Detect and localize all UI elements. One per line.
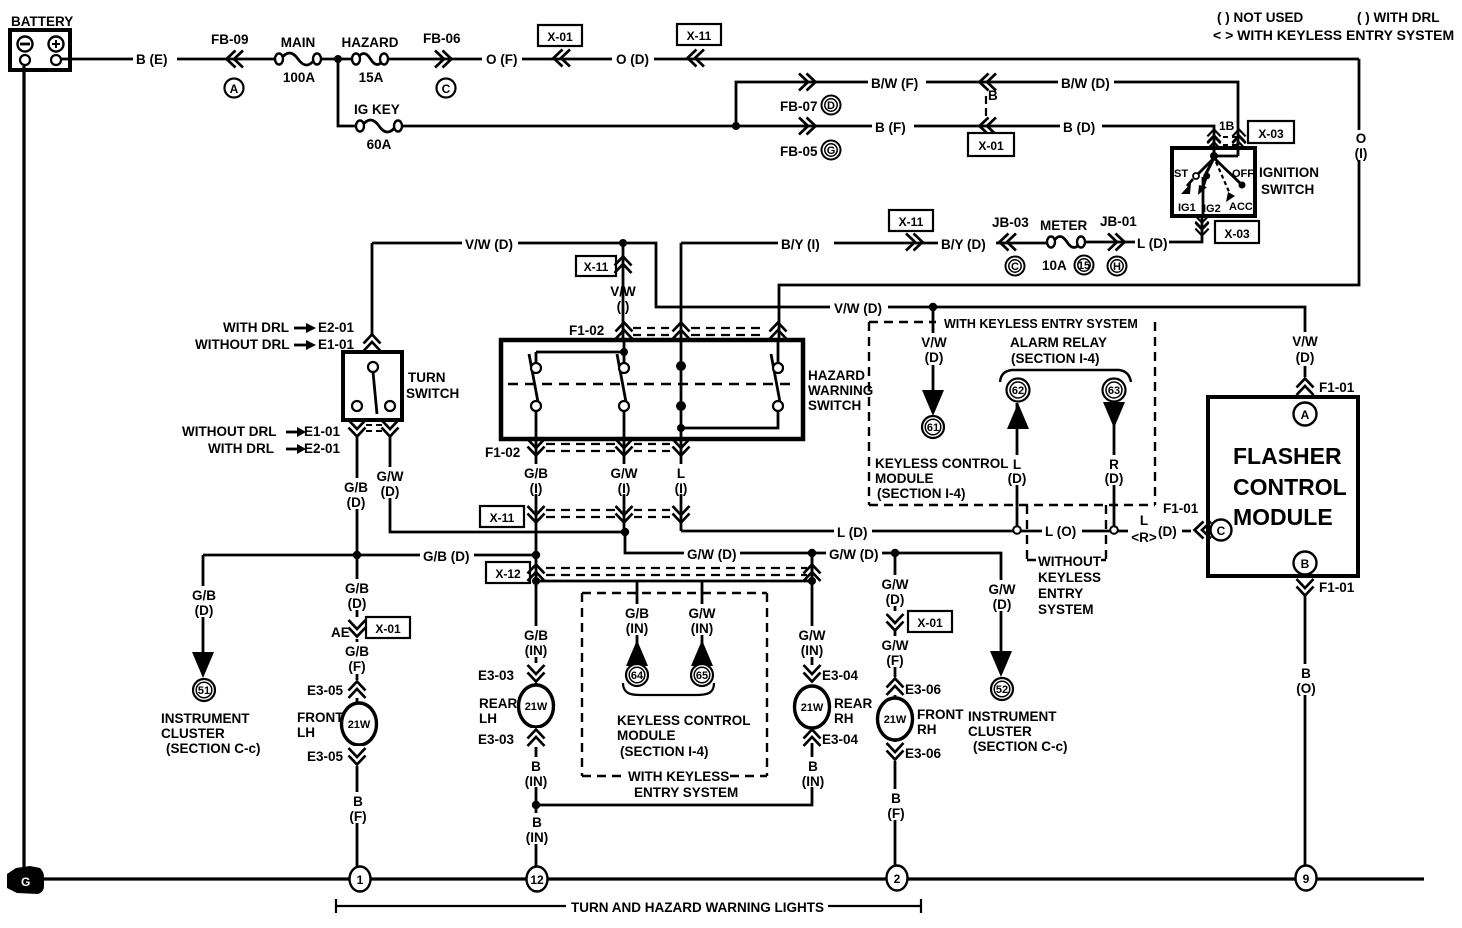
svg-text:KEYLESS: KEYLESS xyxy=(1038,570,1101,585)
label G/B (D) 51 xyxy=(186,586,222,618)
dashed box WITH KEYLESS ENTRY SYSTEM xyxy=(869,317,1155,505)
svg-text:H: H xyxy=(1113,261,1121,273)
svg-text:CLUSTER: CLUSTER xyxy=(968,724,1032,739)
svg-text:X-11: X-11 xyxy=(490,511,515,525)
hazard pole 4 feed from O(I) xyxy=(771,340,783,411)
svg-text:(F): (F) xyxy=(349,809,366,824)
label G/W (IN) 65 xyxy=(683,604,721,636)
svg-text:ENTRY SYSTEM: ENTRY SYSTEM xyxy=(634,785,738,800)
wire junction to IG KEY fuse xyxy=(338,59,355,126)
svg-text:B: B xyxy=(1301,557,1310,571)
label G/W (D) front RH xyxy=(876,575,915,607)
svg-text:D: D xyxy=(827,100,835,112)
svg-text:G/B (D): G/B (D) xyxy=(423,549,470,564)
label WITHOUT DRL E1-01 upper xyxy=(195,337,355,352)
terminal A flasher xyxy=(1294,403,1317,426)
svg-text:B (D): B (D) xyxy=(1063,120,1095,135)
svg-text:G/B: G/B xyxy=(192,588,216,603)
svg-text:F1-01: F1-01 xyxy=(1319,380,1355,395)
svg-text:(D): (D) xyxy=(348,596,367,611)
svg-text:FB-06: FB-06 xyxy=(423,31,461,46)
hazard pole 1 G/B xyxy=(529,352,541,439)
svg-text:L (D): L (D) xyxy=(1137,236,1168,251)
turn switch TURN SWITCH xyxy=(343,352,402,420)
wire branch up to B/W(F) xyxy=(736,82,1238,156)
svg-text:IGNITION: IGNITION xyxy=(1259,165,1319,180)
svg-text:WITH DRL: WITH DRL xyxy=(208,441,274,456)
label L(O) between xyxy=(1042,522,1082,539)
svg-text:L (O): L (O) xyxy=(1045,524,1076,539)
svg-text:WITHOUT: WITHOUT xyxy=(1038,554,1102,569)
label G/W (I) xyxy=(606,464,642,496)
arrow into 64 xyxy=(626,640,648,666)
connector FB-09 xyxy=(211,32,249,98)
ground node 9 xyxy=(1296,866,1317,891)
label B (IN) rear LH xyxy=(518,757,554,789)
svg-text:F1-01: F1-01 xyxy=(1163,501,1199,516)
svg-text:(IN): (IN) xyxy=(802,774,825,789)
connector chevron above turn switch xyxy=(364,335,381,352)
svg-text:G: G xyxy=(827,145,836,157)
svg-text:FLASHER: FLASHER xyxy=(1233,443,1342,469)
svg-text:G/W (D): G/W (D) xyxy=(829,547,879,562)
dashed box keyless control module xyxy=(582,593,767,800)
connector FB-07 on B/W wire xyxy=(780,74,841,115)
svg-text:REAR: REAR xyxy=(479,696,518,711)
svg-text:B/Y (D): B/Y (D) xyxy=(941,237,986,252)
svg-text:E3-05: E3-05 xyxy=(307,683,344,698)
svg-text:G/B: G/B xyxy=(625,606,649,621)
svg-text:WITH DRL: WITH DRL xyxy=(223,320,289,335)
ground bus wire xyxy=(20,877,1424,880)
svg-text:IG2: IG2 xyxy=(1203,203,1221,215)
junction dot B(IN) bus xyxy=(532,801,540,809)
svg-text:G/W: G/W xyxy=(611,466,638,481)
svg-text:SWITCH: SWITCH xyxy=(406,386,459,401)
svg-text:X-01: X-01 xyxy=(978,139,1004,153)
svg-text:MODULE: MODULE xyxy=(1233,504,1333,530)
svg-text:(I): (I) xyxy=(1355,146,1368,161)
label O(I) xyxy=(1348,130,1372,161)
svg-text:B: B xyxy=(1301,666,1311,681)
svg-text:HAZARD: HAZARD xyxy=(342,35,399,50)
svg-text:REAR: REAR xyxy=(834,696,873,711)
connector X-11 top xyxy=(677,24,721,67)
svg-text:B: B xyxy=(891,791,901,806)
label G/B (D) front LH xyxy=(339,579,375,611)
connector X-11 below V/W junction xyxy=(576,256,632,276)
lamp FRONT RH 21W xyxy=(878,698,913,740)
flasher box xyxy=(1208,397,1358,576)
terminal 51 instrument cluster xyxy=(193,679,215,701)
label L(D) meter xyxy=(1135,235,1169,251)
svg-text:RH: RH xyxy=(834,711,854,726)
label B(D) xyxy=(1060,118,1102,135)
pin 1B connector xyxy=(1207,119,1245,149)
wire G/B(D) horizontal xyxy=(203,554,536,557)
junction dot front RH branch xyxy=(891,549,899,557)
svg-text:ALARM RELAY: ALARM RELAY xyxy=(1010,335,1107,350)
svg-text:WITH KEYLESS: WITH KEYLESS xyxy=(628,769,729,784)
wire L(D) from hazard to flasher xyxy=(681,530,1191,533)
svg-text:(IN): (IN) xyxy=(691,621,714,636)
arrow into 51 xyxy=(192,652,214,678)
svg-text:(D): (D) xyxy=(381,484,400,499)
svg-text:(O): (O) xyxy=(1296,681,1316,696)
wire L(I) pillar xyxy=(680,439,683,531)
svg-text:( ) WITH DRL: ( ) WITH DRL xyxy=(1357,10,1439,25)
svg-text:(IN): (IN) xyxy=(525,643,548,658)
connector X-03 top xyxy=(1248,121,1294,143)
svg-text:C: C xyxy=(442,82,451,96)
ground node 1 xyxy=(350,867,371,892)
svg-text:L (D): L (D) xyxy=(837,525,868,540)
label G/W(D) a xyxy=(684,546,740,562)
label G/B (F) xyxy=(339,642,375,674)
label G/B (D) turn left xyxy=(340,478,374,510)
svg-text:B (F): B (F) xyxy=(875,120,906,135)
svg-text:(D): (D) xyxy=(1008,471,1027,486)
label WITHOUT DRL E1-01 lower xyxy=(182,424,341,439)
svg-text:G/B: G/B xyxy=(345,644,369,659)
svg-text:BATTERY: BATTERY xyxy=(11,14,73,29)
label L (I) xyxy=(666,464,696,496)
junction dot V/W(D) keyless xyxy=(929,303,937,311)
svg-text:X-11: X-11 xyxy=(584,260,609,274)
svg-text:(I): (I) xyxy=(530,481,543,496)
svg-text:B/W (D): B/W (D) xyxy=(1061,76,1110,91)
svg-text:F1-02: F1-02 xyxy=(485,445,520,460)
label WITH DRL E2-01 lower xyxy=(208,441,341,456)
svg-text:G/W: G/W xyxy=(882,638,909,653)
svg-text:52: 52 xyxy=(996,684,1008,696)
connector F1-01 A xyxy=(1297,379,1355,396)
terminal circle L(D) on wire xyxy=(1013,526,1021,534)
junction dot G/W turn + hazard xyxy=(621,528,629,536)
svg-text:A: A xyxy=(230,82,239,96)
wire stem to 64 xyxy=(636,581,639,645)
wire rear LH column xyxy=(535,581,538,867)
svg-text:63: 63 xyxy=(1108,385,1120,397)
svg-text:(D): (D) xyxy=(195,603,214,618)
svg-text:B (E): B (E) xyxy=(136,52,168,67)
terminal 62 alarm relay xyxy=(1007,379,1030,402)
connector C into flasher xyxy=(1195,522,1212,539)
connector X-03 bottom xyxy=(1215,221,1259,243)
svg-text:(D): (D) xyxy=(993,597,1012,612)
wire meter fuse to ignition xyxy=(1085,241,1168,244)
svg-text:WARNING: WARNING xyxy=(808,383,873,398)
connector X-01 front RH xyxy=(887,611,953,632)
connector E3-05 lower xyxy=(307,746,366,766)
label V/W (D) flasher A xyxy=(1288,332,1324,366)
svg-text:X-11: X-11 xyxy=(687,29,712,43)
svg-text:RH: RH xyxy=(917,722,937,737)
wire G/B(I) pillar xyxy=(535,439,538,555)
svg-text:X-03: X-03 xyxy=(1258,127,1284,141)
svg-text:INSTRUMENT: INSTRUMENT xyxy=(161,711,250,726)
wire 63 to R(D) with down arrow xyxy=(1113,402,1116,527)
terminal 63 alarm relay xyxy=(1103,379,1126,402)
svg-text:(F): (F) xyxy=(887,806,904,821)
svg-text:SWITCH: SWITCH xyxy=(1261,182,1314,197)
label B/W(F) xyxy=(868,74,926,91)
connector F1-01 B xyxy=(1297,579,1355,596)
svg-text:E1-01: E1-01 xyxy=(304,424,341,439)
ground node 2 xyxy=(887,866,908,891)
svg-text:G/B: G/B xyxy=(344,480,368,495)
label R (D) 63 xyxy=(1099,455,1131,486)
terminal circle R(D) on wire xyxy=(1110,526,1118,534)
label L <R> (D) xyxy=(1128,513,1182,545)
svg-text:51: 51 xyxy=(198,685,210,697)
svg-text:LH: LH xyxy=(297,725,315,740)
label G/W (D) 52 xyxy=(983,580,1022,612)
label B/Y(D) xyxy=(938,235,996,252)
svg-text:1: 1 xyxy=(357,873,364,887)
svg-text:SWITCH: SWITCH xyxy=(808,398,861,413)
svg-text:ENTRY: ENTRY xyxy=(1038,586,1083,601)
junction dot V/W xyxy=(619,239,627,247)
svg-text:MODULE: MODULE xyxy=(875,471,934,486)
terminal B flasher xyxy=(1294,552,1317,575)
svg-text:9: 9 xyxy=(1303,872,1310,886)
svg-text:B: B xyxy=(808,759,818,774)
svg-text:V/W: V/W xyxy=(921,335,947,350)
label V/W (D) 61 xyxy=(916,333,954,365)
svg-text:WITHOUT DRL: WITHOUT DRL xyxy=(195,337,289,352)
svg-text:B: B xyxy=(353,794,363,809)
svg-text:100A: 100A xyxy=(283,70,316,85)
wire battery negative to ground bus xyxy=(22,66,25,879)
ignition switch box xyxy=(1172,146,1255,216)
label L (D) 62 xyxy=(1002,455,1033,486)
svg-text:TURN: TURN xyxy=(408,370,446,385)
label B/W(D) xyxy=(1058,74,1114,91)
dashed box WITHOUT KEYLESS xyxy=(1027,505,1106,617)
svg-text:15A: 15A xyxy=(359,70,384,85)
svg-text:G/W: G/W xyxy=(989,582,1016,597)
svg-text:G/W: G/W xyxy=(882,577,909,592)
label G/W (D) turn right xyxy=(372,467,408,499)
terminal 61 keyless control module xyxy=(922,416,944,438)
label O(D) xyxy=(612,51,654,67)
svg-text:(I): (I) xyxy=(675,481,688,496)
svg-text:(D): (D) xyxy=(347,495,366,510)
svg-text:CONTROL: CONTROL xyxy=(1233,474,1347,500)
svg-text:G/W: G/W xyxy=(799,628,826,643)
bracket TURN AND HAZARD WARNING LIGHTS xyxy=(336,899,921,915)
connectors below turn switch xyxy=(349,420,399,437)
label V/W (I) xyxy=(606,283,642,314)
svg-text:C: C xyxy=(1217,524,1226,538)
connector FB-06 xyxy=(423,31,461,98)
svg-text:B/Y (I): B/Y (I) xyxy=(781,237,820,252)
connector X-12 row xyxy=(486,562,821,583)
terminal 65 xyxy=(691,664,713,686)
wire IG KEY fuse to ignition switch B(D) xyxy=(402,126,1214,156)
ground symbol G xyxy=(7,866,44,894)
svg-text:X-01: X-01 xyxy=(917,616,943,630)
wire flasher B to ground 9 xyxy=(1304,596,1307,867)
svg-text:(IN): (IN) xyxy=(626,621,649,636)
label B (D) flasher xyxy=(1290,664,1322,696)
svg-text:FRONT: FRONT xyxy=(917,707,964,722)
svg-text:IG KEY: IG KEY xyxy=(354,102,400,117)
junction dot G/B pillar xyxy=(532,551,540,559)
svg-text:JB-01: JB-01 xyxy=(1100,214,1137,229)
svg-text:L: L xyxy=(1140,513,1148,528)
svg-text:X-01: X-01 xyxy=(375,622,401,636)
connector E3-06 lower xyxy=(887,742,942,761)
svg-text:O (F): O (F) xyxy=(486,52,518,67)
arrow into 61 xyxy=(922,390,944,416)
junction dot G/B front LH xyxy=(353,551,361,559)
wire stem to 65 xyxy=(701,581,704,645)
svg-text:<R>: <R> xyxy=(1131,530,1157,545)
svg-text:HAZARD: HAZARD xyxy=(808,368,865,383)
connector E3-03 upper xyxy=(478,663,545,683)
svg-text:G: G xyxy=(21,875,30,889)
connector JB-01 xyxy=(1100,214,1137,276)
label B/Y(I) xyxy=(778,235,834,252)
svg-text:12: 12 xyxy=(530,873,544,887)
svg-text:65: 65 xyxy=(696,670,708,682)
svg-text:CLUSTER: CLUSTER xyxy=(161,726,225,741)
svg-text:1B: 1B xyxy=(1219,119,1235,133)
svg-text:X-12: X-12 xyxy=(495,567,521,581)
connector X-01 B double xyxy=(968,74,1014,157)
svg-text:WITHOUT DRL: WITHOUT DRL xyxy=(182,424,276,439)
wire G/W(I) pillar xyxy=(623,439,626,532)
svg-text:B: B xyxy=(531,759,541,774)
svg-text:15: 15 xyxy=(1078,260,1090,272)
hazard pole 2 G/W with top link xyxy=(536,340,629,439)
svg-text:KEYLESS CONTROL: KEYLESS CONTROL xyxy=(617,713,751,728)
svg-text:KEYLESS CONTROL: KEYLESS CONTROL xyxy=(875,456,1009,471)
wire rear RH column xyxy=(811,553,814,665)
wire to turn switch top xyxy=(371,243,374,334)
svg-text:L: L xyxy=(677,466,685,481)
svg-text:(D): (D) xyxy=(1105,471,1124,486)
wire G/B(D) to instrument cluster 51 xyxy=(202,555,205,652)
svg-text:V/W (D): V/W (D) xyxy=(834,301,882,316)
svg-text:X-11: X-11 xyxy=(899,215,924,229)
svg-text:SYSTEM: SYSTEM xyxy=(1038,602,1094,617)
svg-text:B: B xyxy=(988,88,998,103)
svg-text:F1-02: F1-02 xyxy=(569,323,604,338)
wire turn switch right output G/W(D) xyxy=(390,437,625,532)
label G/B (IN) rear LH xyxy=(517,626,555,658)
wire G/W(D) to lamps xyxy=(625,532,1001,652)
wire 62 to L(D) with up arrow xyxy=(1016,403,1019,527)
svg-text:(I): (I) xyxy=(618,481,631,496)
wire front RH column xyxy=(894,553,897,867)
wire O(I) vertical right side xyxy=(779,59,1359,340)
connector JB-03 xyxy=(992,215,1029,276)
label B (F) front RH xyxy=(880,789,911,821)
svg-text:(IN): (IN) xyxy=(525,774,548,789)
lamp FRONT LH 21W xyxy=(342,703,377,745)
svg-text:(SECTION I-4): (SECTION I-4) xyxy=(620,744,709,759)
svg-text:(D): (D) xyxy=(1296,350,1315,365)
label B (IN) below junction xyxy=(519,813,555,845)
svg-text:A: A xyxy=(1301,408,1310,422)
svg-text:(F): (F) xyxy=(348,659,365,674)
svg-text:MAIN: MAIN xyxy=(281,35,316,50)
wire front LH column xyxy=(356,555,359,867)
ground node 12 xyxy=(527,867,548,892)
svg-text:B/W (F): B/W (F) xyxy=(871,76,918,91)
svg-text:G/W (D): G/W (D) xyxy=(687,547,737,562)
arrow into 52 xyxy=(990,651,1012,677)
label G/B(D) xyxy=(420,548,474,564)
wire V/W(D) into keyless module xyxy=(932,307,935,390)
svg-text:FB-05: FB-05 xyxy=(780,144,818,159)
brace alarm relay xyxy=(1000,370,1131,382)
connector X-01 top xyxy=(538,25,582,67)
terminal C flasher xyxy=(1211,520,1232,541)
wire B(E) battery to main fuse row (top feed) xyxy=(61,58,1359,61)
junction dot main/hazard/igkey xyxy=(334,55,342,63)
svg-text:ST: ST xyxy=(1174,168,1188,180)
label B (IN) rear RH xyxy=(795,757,831,789)
label B(E) xyxy=(133,50,177,67)
label B(F) xyxy=(872,118,914,135)
connector FB-05 on B wire xyxy=(780,118,841,160)
svg-text:MODULE: MODULE xyxy=(617,728,676,743)
svg-text:V/W: V/W xyxy=(1292,334,1318,349)
connector E3-05 upper xyxy=(307,680,366,698)
label WITH DRL E2-01 upper xyxy=(223,320,355,335)
svg-text:2: 2 xyxy=(894,872,901,886)
svg-text:(SECTION I-4): (SECTION I-4) xyxy=(877,486,966,501)
battery BATTERY xyxy=(10,14,73,70)
svg-text:E3-04: E3-04 xyxy=(822,732,859,747)
svg-text:E3-03: E3-03 xyxy=(478,732,515,747)
svg-text:OFF: OFF xyxy=(1232,168,1254,180)
lamp REAR LH 21W xyxy=(519,685,554,727)
svg-text:FRONT: FRONT xyxy=(297,710,344,725)
wire B/Y(I) from hazard L pillar to meter fuse xyxy=(681,242,1046,245)
junction dots on branch bus xyxy=(532,577,540,585)
junction dot B(F) branch xyxy=(732,122,740,130)
wire G/B keyless branch bus xyxy=(536,553,812,581)
label G/W (IN) rear RH xyxy=(793,626,832,658)
fuse HAZARD 15A xyxy=(342,35,399,85)
label V/W(D) left xyxy=(462,236,518,252)
connector E3-03 lower xyxy=(478,728,545,747)
svg-text:ACC: ACC xyxy=(1229,201,1253,213)
svg-text:E3-06: E3-06 xyxy=(905,746,942,761)
lamp REAR RH 21W xyxy=(795,686,830,728)
svg-text:61: 61 xyxy=(927,422,939,434)
svg-text:G/B: G/B xyxy=(524,628,548,643)
arrow into 65 xyxy=(691,640,713,666)
svg-text:(SECTION I-4): (SECTION I-4) xyxy=(1011,351,1100,366)
svg-text:O (D): O (D) xyxy=(616,52,649,67)
svg-text:< > WITH KEYLESS ENTRY SYSTEM: < > WITH KEYLESS ENTRY SYSTEM xyxy=(1213,27,1454,43)
connector AE X-01 xyxy=(331,617,410,640)
svg-text:E2-01: E2-01 xyxy=(304,441,341,456)
svg-text:F1-01: F1-01 xyxy=(1319,580,1355,595)
fuse METER 10A xyxy=(1040,218,1094,275)
label L(D) xyxy=(834,524,872,540)
label G/W (F) xyxy=(876,636,915,668)
svg-text:LH: LH xyxy=(479,711,497,726)
terminal 64 xyxy=(626,664,648,686)
svg-text:AE: AE xyxy=(331,625,350,640)
